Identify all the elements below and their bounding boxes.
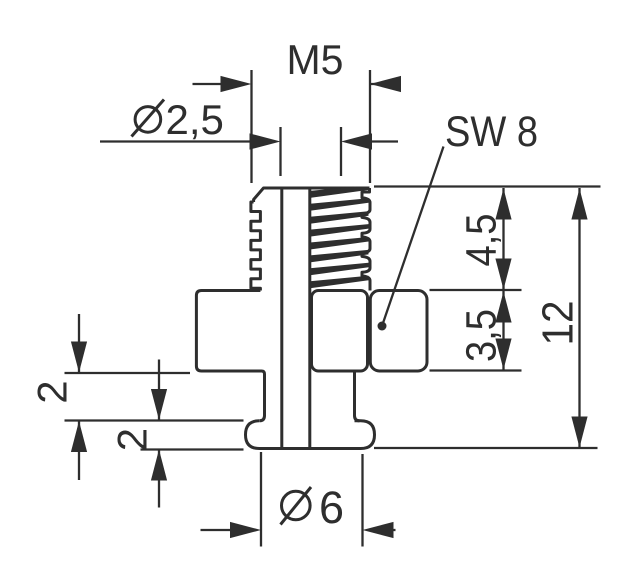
svg-text:SW 8: SW 8	[445, 108, 538, 156]
svg-text:4,5: 4,5	[457, 214, 505, 267]
svg-text:M5: M5	[287, 36, 344, 83]
svg-text:12: 12	[534, 301, 583, 346]
svg-text:3,5: 3,5	[457, 309, 505, 362]
svg-text:6: 6	[319, 482, 344, 533]
svg-text:2: 2	[109, 428, 156, 451]
svg-text:2: 2	[29, 380, 76, 403]
svg-text:2,5: 2,5	[166, 96, 224, 143]
